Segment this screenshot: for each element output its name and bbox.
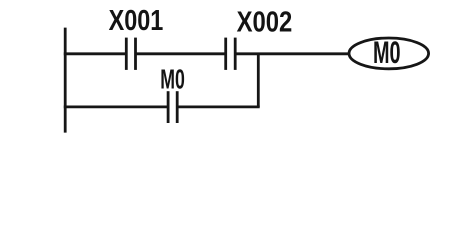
wire: rung 2, rail to contact M0 (64, 106, 168, 109)
wire: rung 1, rail to contact X001 (64, 52, 127, 55)
svg-text:M0: M0 (373, 34, 401, 70)
svg-text:M0: M0 (160, 63, 185, 94)
svg-text:X002: X002 (237, 7, 293, 39)
wire: rung 1, X002 to coil M0 (235, 52, 348, 55)
wire: branch vertical drop (junction after X002) (257, 54, 260, 107)
wire: rung 1, X001 to X002 (136, 52, 226, 55)
wire: rung 2, contact M0 to branch (177, 106, 260, 109)
contact X001 (126, 38, 135, 70)
coil M0 (ellipse) (349, 38, 429, 69)
left power rail (64, 28, 67, 133)
contact M0 (168, 91, 177, 123)
svg-text:X001: X001 (109, 5, 164, 37)
contact X002 (226, 38, 236, 70)
